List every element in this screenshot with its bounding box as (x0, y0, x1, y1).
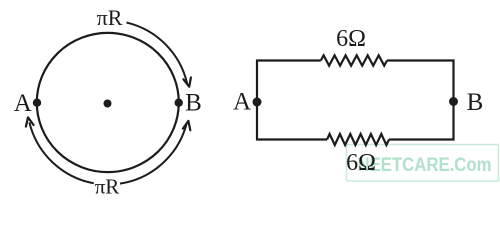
svg-text:6Ω: 6Ω (336, 26, 366, 52)
wire: top-right segment of circuit rectangle (387, 61, 454, 103)
svg-text:πR: πR (97, 5, 123, 30)
svg-text:πR: πR (95, 175, 120, 199)
wire: bottom-right segment of circuit rectangle (389, 102, 454, 140)
bottom-left arc arrow (lower half path, toward A) (29, 122, 93, 183)
svg-text:A: A (233, 88, 251, 115)
top arc arrow (upper half path A to B) (127, 23, 188, 84)
resistor R1 (top, zigzag) (321, 55, 387, 65)
bottom-right arc arrow (lower half path, toward B) (120, 124, 187, 184)
svg-text:A: A (14, 90, 32, 117)
resistor R2 (bottom, zigzag) (327, 134, 389, 145)
wire: bottom-left segment of circuit rectangle (257, 102, 327, 140)
node A (circuit) (253, 98, 262, 107)
svg-text:6Ω: 6Ω (346, 150, 376, 176)
circular wire loop (37, 33, 179, 172)
node B (circuit) (449, 97, 458, 106)
arrowhead of top arc arrow (183, 78, 191, 87)
node B (circle) (175, 99, 183, 107)
wire: top-left segment of circuit rectangle (257, 61, 321, 103)
svg-text:NEETCARE.Com: NEETCARE.Com (358, 154, 492, 176)
watermark box (347, 145, 499, 182)
arrowhead of bottom-left arc arrow (26, 117, 34, 126)
center dot of circle (104, 100, 112, 108)
svg-text:B: B (467, 89, 484, 116)
arrowhead of bottom-right arc arrow (183, 121, 190, 130)
node A (circle) (33, 99, 41, 107)
svg-text:B: B (185, 90, 202, 117)
